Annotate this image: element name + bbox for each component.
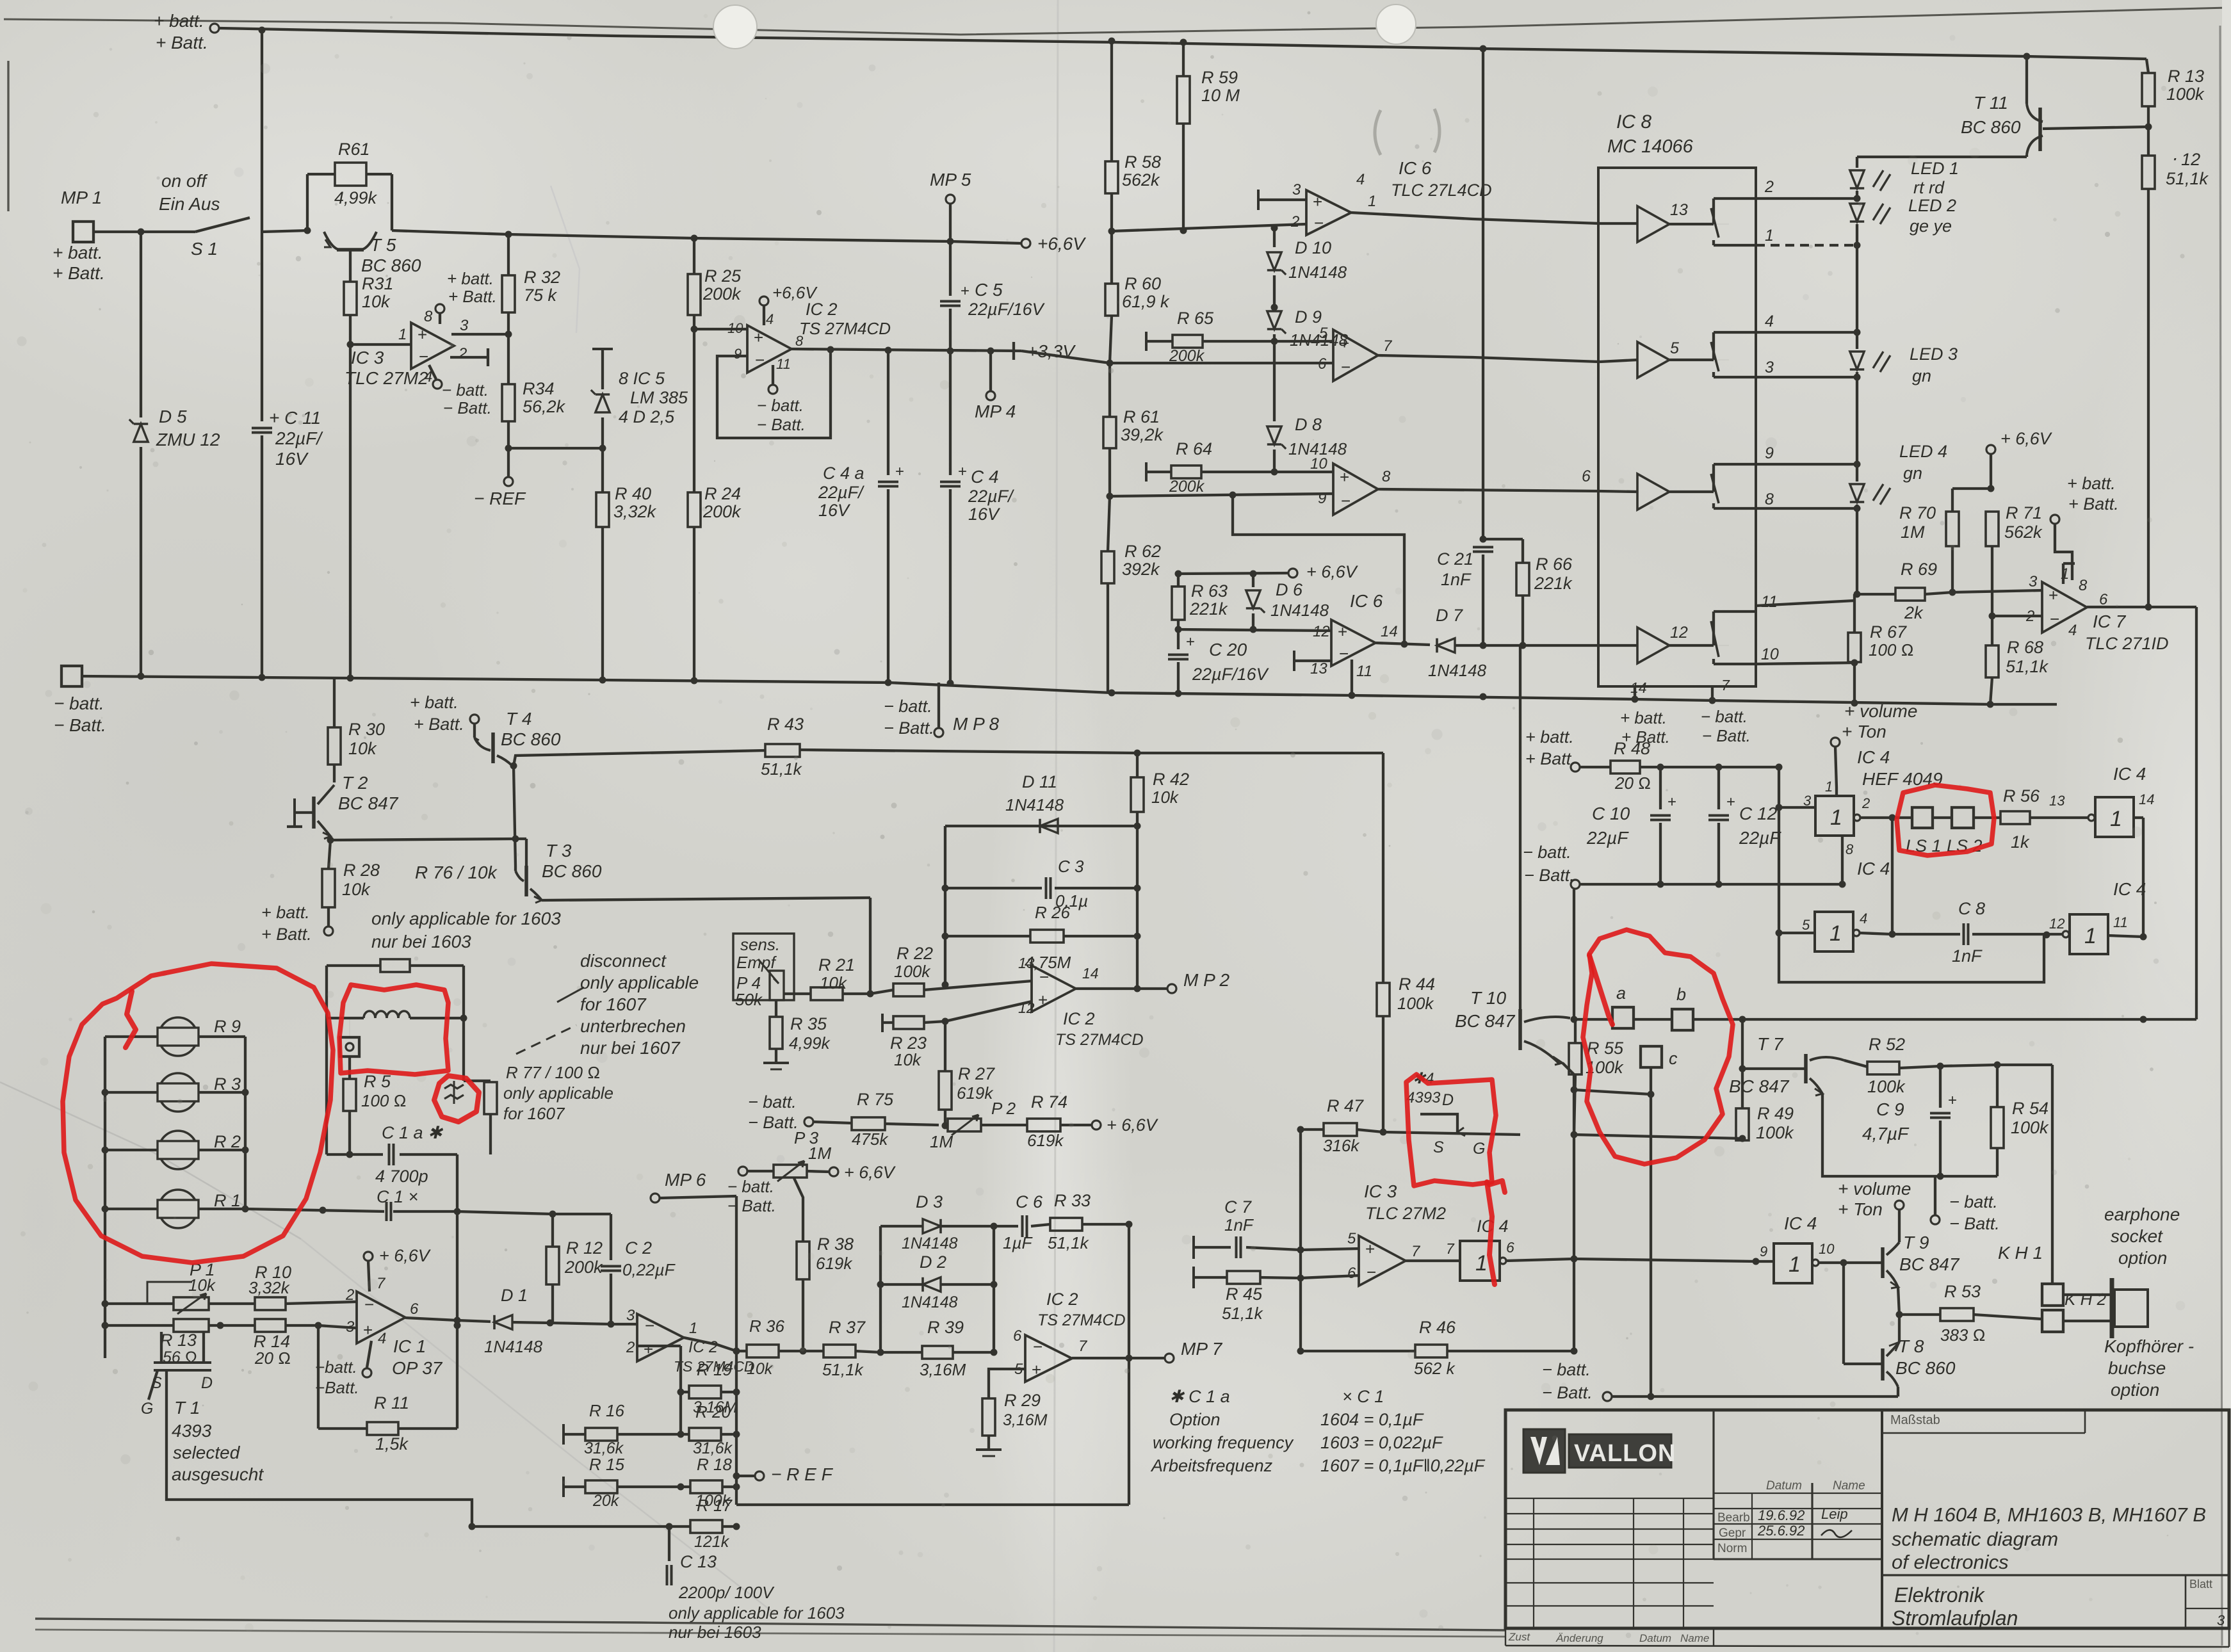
svg-text:LED 4: LED 4: [1899, 442, 1947, 461]
svg-text:R 75: R 75: [857, 1090, 894, 1109]
svg-text:D 6: D 6: [1276, 580, 1303, 599]
node -batt bottom mid: [1603, 1392, 1612, 1401]
svg-text:4,99k: 4,99k: [789, 1033, 831, 1053]
wire R24 to -batt rail: [693, 527, 695, 681]
wire MP1 to S1: [93, 231, 195, 233]
wire input loop vertical: [1779, 767, 2044, 982]
node -batt terminal square: [61, 666, 82, 686]
svg-text:39,2k: 39,2k: [1121, 425, 1164, 444]
wire +6.6V rail: [392, 231, 1021, 243]
sheet border right edge: [2220, 26, 2222, 1646]
resistor R64 200k: [1145, 462, 1148, 482]
transistor T10 BC847: [1518, 1009, 1522, 1050]
wire LED1 node pin2: [1756, 197, 1857, 200]
svg-text:Blatt: Blatt: [2189, 1578, 2212, 1591]
svg-text:+: +: [1726, 793, 1735, 811]
diode D9 1N4148: [1267, 311, 1281, 329]
svg-text:T 11: T 11: [1974, 93, 2008, 113]
svg-text:gn: gn: [1912, 366, 1931, 385]
svg-text:TLC 27M2: TLC 27M2: [1365, 1204, 1446, 1223]
diode D8 1N4148: [1273, 341, 1276, 421]
svg-text:C 5: C 5: [975, 280, 1003, 300]
svg-text:socket: socket: [2111, 1226, 2163, 1246]
svg-text:+ batt.: + batt.: [410, 693, 458, 712]
svg-text:+: +: [1667, 793, 1676, 811]
node MP4: [989, 351, 992, 391]
capacitor C9 4.7uF: [1939, 1066, 1942, 1108]
svg-text:S 1: S 1: [191, 239, 218, 259]
wire C1 row extension to R12 C2: [457, 1211, 611, 1214]
wire R40 to -batt rail: [601, 527, 604, 680]
svg-text:IC 7: IC 7: [2093, 611, 2127, 631]
resistor R12 200k: [551, 1214, 554, 1247]
capacitor C11 22uF 16V: [261, 232, 263, 421]
svg-text:R 49: R 49: [1757, 1104, 1794, 1123]
wire IC7 top pins loop: [2062, 563, 2065, 584]
wire mid vertical feedback: [1573, 1090, 1575, 1351]
wire IC6c pin9 row: [1110, 494, 1333, 496]
svg-text:14: 14: [1082, 965, 1099, 982]
svg-text:Datum: Datum: [1639, 1632, 1671, 1644]
svg-text:−: −: [364, 1295, 374, 1314]
wire R27 vertical: [944, 1021, 946, 1071]
wire IC1 +6.6V pin7: [364, 1252, 373, 1261]
svg-text:+: +: [1340, 334, 1349, 353]
svg-text:R 44: R 44: [1399, 975, 1435, 994]
svg-text:2200p/ 100V: 2200p/ 100V: [678, 1583, 775, 1602]
svg-text:Maßstab: Maßstab: [1890, 1413, 1940, 1427]
wire D1 node to IC2c: [550, 1323, 637, 1324]
wire T9 T8 base tie: [1842, 1263, 1845, 1364]
resistor R71 562k: [1986, 512, 1999, 546]
svg-text:MP 1: MP 1: [61, 188, 102, 207]
svg-text:IC 3: IC 3: [351, 348, 384, 368]
node -REF bottom: [736, 1475, 754, 1477]
wire R21 node to R22: [870, 990, 893, 994]
svg-text:rt rd: rt rd: [1913, 178, 1945, 197]
svg-text:TS 27M4CD: TS 27M4CD: [1055, 1031, 1144, 1049]
wire c node down to -batt row: [1650, 1094, 1652, 1397]
node +batt T4: [470, 715, 479, 724]
svg-text:R61: R61: [338, 140, 370, 159]
wire R55/R49 bottom row: [1574, 1135, 1742, 1138]
svg-text:1N4148: 1N4148: [1428, 661, 1487, 680]
resistor R77 100ohm: [464, 1080, 491, 1082]
wire -batt row mid: [1580, 883, 1842, 886]
wire T3 row down to R21 node: [869, 898, 872, 994]
svg-text:C 2: C 2: [625, 1238, 652, 1258]
svg-text:1: 1: [2110, 807, 2122, 831]
svg-text:− batt.: − batt.: [442, 380, 489, 400]
resistor R39 3.16M: [880, 1351, 922, 1354]
svg-text:51,1k: 51,1k: [1048, 1233, 1090, 1252]
svg-text:nur bei 1603: nur bei 1603: [371, 932, 471, 952]
svg-text:− R E F: − R E F: [771, 1464, 834, 1484]
wire T8 emitter up to R53 node: [1898, 1315, 1901, 1342]
switch IC8-3: [1712, 464, 1715, 492]
svg-text:−: −: [1314, 213, 1324, 232]
svg-text:2: 2: [345, 1286, 354, 1304]
resistor R63 221k: [1177, 574, 1180, 587]
dashed disconnect mark: [516, 1025, 576, 1054]
svg-text:1k: 1k: [2011, 832, 2030, 852]
svg-text:14: 14: [2139, 791, 2154, 807]
svg-text:16V: 16V: [818, 501, 851, 520]
svg-text:− Batt.: − Batt.: [1524, 866, 1575, 885]
svg-text:619k: 619k: [816, 1254, 853, 1273]
red circle around R9 R3 R2 R1 sensor: [63, 964, 333, 1263]
transistor T9 BC847: [1881, 1247, 1885, 1278]
wire R70 R71 top row: [1952, 487, 1991, 490]
svg-text:R 16: R 16: [589, 1401, 624, 1420]
resistor R12 51.1k: [2147, 127, 2150, 156]
svg-text:Datum: Datum: [1766, 1479, 1802, 1493]
resistor R31 10k: [344, 282, 357, 315]
svg-text:1,5k: 1,5k: [375, 1434, 409, 1454]
svg-text:22µF: 22µF: [1739, 828, 1781, 848]
svg-text:R 60: R 60: [1124, 274, 1161, 293]
svg-text:R 61: R 61: [1123, 407, 1160, 426]
resistor R5 100ohm: [343, 1079, 356, 1111]
svg-text:+: +: [1338, 622, 1347, 642]
svg-text:only applicable for 1603: only applicable for 1603: [669, 1603, 845, 1623]
svg-text:IC 4: IC 4: [1784, 1213, 1817, 1233]
sheet border left tick: [7, 61, 9, 211]
wire IC7 pin2 row: [1992, 615, 2042, 617]
zener D6 1N4148: [1252, 574, 1254, 587]
wire IC6d pin13 tick: [1293, 651, 1295, 671]
svg-text:5: 5: [1670, 339, 1679, 357]
svg-text:R 68: R 68: [2007, 638, 2043, 657]
svg-text:56,2k: 56,2k: [523, 397, 566, 416]
svg-text:✱ C 1 a: ✱ C 1 a: [1169, 1387, 1230, 1406]
svg-text:T 5: T 5: [370, 235, 396, 255]
svg-text:for 1607: for 1607: [503, 1104, 565, 1123]
svg-text:× C 1: × C 1: [1342, 1387, 1384, 1406]
svg-text:8 IC 5: 8 IC 5: [619, 369, 665, 388]
svg-text:− Batt.: − Batt.: [757, 415, 806, 434]
svg-text:10k: 10k: [820, 973, 848, 992]
capacitor C3 0.1u: [945, 887, 1042, 889]
resistor R45 51.1k: [1192, 1267, 1195, 1288]
wire R31 to IC3 input node: [349, 315, 352, 344]
svg-text:S: S: [151, 1374, 162, 1392]
pot P3 1M: [738, 1167, 747, 1176]
svg-text:+: +: [1365, 1239, 1375, 1258]
capacitor C7 1nF: [1192, 1236, 1195, 1259]
svg-text:C 9: C 9: [1876, 1099, 1904, 1119]
resistor R56 1k: [1974, 816, 2000, 819]
svg-text:1M: 1M: [1901, 522, 1925, 542]
svg-text:3,16M: 3,16M: [920, 1360, 966, 1379]
wire IC2 feedback loop: [717, 350, 831, 438]
svg-text:BC 847: BC 847: [1899, 1254, 1960, 1274]
VALLON logo: [1523, 1429, 1565, 1473]
svg-text:R 46: R 46: [1419, 1318, 1456, 1337]
LED1 red: [1856, 157, 1858, 168]
inverter IC4-c: [1815, 912, 1853, 952]
svg-text:+ Ton: + Ton: [1838, 1199, 1883, 1219]
svg-text:3,32k: 3,32k: [613, 502, 657, 521]
wire IC1 pin4 -batt: [367, 1341, 371, 1368]
svg-text:T 3: T 3: [546, 841, 572, 861]
svg-text:R 18: R 18: [697, 1455, 732, 1474]
resistor R54 100k: [1996, 1065, 1999, 1107]
svg-text:D: D: [201, 1374, 213, 1392]
svg-text:3: 3: [2217, 1612, 2225, 1628]
svg-text:nur bei 1607: nur bei 1607: [580, 1038, 681, 1058]
resistor R68 51.1k: [1991, 616, 1993, 645]
svg-text:− batt.: − batt.: [727, 1177, 774, 1196]
inverter IC4-a: [1815, 796, 1854, 836]
svg-text:nur bei 1603: nur bei 1603: [669, 1623, 761, 1642]
resistor R13 100k: [2146, 59, 2148, 73]
op-amp IC3 TLC27M2: [411, 323, 454, 369]
svg-text:R 54: R 54: [2012, 1099, 2048, 1118]
switch S1: [195, 218, 250, 232]
svg-text:D 7: D 7: [1436, 606, 1463, 625]
wire +3.3V to comparator node: [1021, 351, 1110, 363]
svg-text:BC 847: BC 847: [1729, 1076, 1790, 1096]
wire LED2 node pin1: [1756, 244, 1857, 247]
svg-text:+: +: [1948, 1092, 1957, 1109]
svg-text:− Batt.: − Batt.: [1702, 726, 1751, 745]
svg-text:R 56: R 56: [2003, 786, 2040, 806]
transistor T5 BC860: [324, 232, 339, 250]
svg-text:4: 4: [378, 1330, 386, 1347]
transistor T11 BC860: [2025, 56, 2028, 104]
svg-text:IC 3: IC 3: [1364, 1181, 1397, 1201]
resistor R22 100k: [893, 984, 924, 996]
capacitor C6 1uF: [994, 1225, 1018, 1227]
svg-text:8: 8: [1765, 490, 1774, 508]
svg-text:+: +: [418, 325, 427, 344]
wire IC2 pin11 to -batt: [772, 365, 774, 384]
svg-text:+ batt.: + batt.: [1620, 708, 1667, 727]
svg-text:C 12: C 12: [1739, 804, 1778, 823]
svg-text:unterbrechen: unterbrechen: [580, 1016, 686, 1036]
svg-text:51,1k: 51,1k: [822, 1360, 864, 1379]
svg-text:+6,6V: +6,6V: [1037, 234, 1086, 254]
svg-text:2: 2: [1290, 213, 1299, 231]
svg-text:1: 1: [1829, 921, 1842, 946]
red box around inductor: [339, 985, 448, 1074]
capacitor C12 22uF: [1717, 767, 1720, 809]
wire R32 to R34: [507, 312, 510, 384]
svg-text:3: 3: [1292, 181, 1301, 198]
wire LED3 node pin3: [1756, 376, 1857, 378]
svg-text:R 28: R 28: [343, 861, 380, 880]
wire pin9 row: [1756, 463, 1857, 466]
wire +batt feed down to S1: [261, 30, 263, 232]
resistor R2: [159, 1131, 197, 1169]
svg-text:ge ye: ge ye: [1910, 216, 1952, 236]
svg-text:R34: R34: [523, 379, 555, 398]
svg-text:10: 10: [1761, 645, 1779, 663]
svg-text:+ batt.: + batt.: [53, 243, 103, 263]
punch hole right: [1376, 4, 1416, 44]
wire T4 to T3 vertical: [514, 766, 515, 866]
svg-text:+ batt.: + batt.: [261, 903, 310, 922]
red box around LS1 LS2: [1897, 785, 1994, 855]
svg-text:Stromlaufplan: Stromlaufplan: [1892, 1607, 2018, 1630]
resistor R25 200k: [693, 238, 695, 274]
svg-text:5: 5: [1319, 325, 1328, 342]
wire S1 node to T5: [262, 231, 307, 232]
svg-text:200k: 200k: [702, 284, 742, 304]
resistor R69 2k: [1857, 593, 1895, 595]
node MP5: [946, 195, 955, 204]
red scribble around squiggle: [434, 1076, 479, 1122]
coil loop frame: [325, 966, 328, 1154]
svg-text:D 9: D 9: [1295, 307, 1322, 327]
wire tap to IC2 pin10: [694, 328, 747, 330]
resistor R61b 39.2k: [1108, 363, 1111, 417]
op-amp IC2-c TS27M4CD: [637, 1314, 684, 1361]
svg-text:MC 14066: MC 14066: [1607, 136, 1694, 157]
red blob around pads a b c: [1583, 930, 1733, 1164]
svg-text:1N4148: 1N4148: [1005, 795, 1064, 814]
svg-text:M H 1604 B, MH1603 B, MH1607 B: M H 1604 B, MH1603 B, MH1607 B: [1892, 1503, 2206, 1526]
resistor R26 4.75M: [945, 935, 1030, 937]
node pad a: [1612, 1007, 1634, 1028]
svg-text:R 63: R 63: [1191, 581, 1228, 601]
resistor R9: [159, 1017, 197, 1056]
wire coil tap down: [348, 1057, 351, 1079]
svg-text:R 39: R 39: [927, 1318, 964, 1337]
svg-text:D 8: D 8: [1295, 415, 1322, 434]
svg-text:BC 860: BC 860: [542, 861, 602, 881]
svg-text:100k: 100k: [1397, 994, 1434, 1013]
svg-text:7: 7: [1383, 337, 1393, 355]
zener IC5 LM385 D2.5: [592, 348, 613, 350]
op-amp IC2 TS27M4CD regulator buffer: [747, 325, 791, 373]
svg-text:K H 2: K H 2: [2065, 1290, 2107, 1309]
buffer IC8-1: [1637, 206, 1669, 242]
wire comparator minus row: [1112, 224, 1306, 231]
svg-text:only applicable: only applicable: [503, 1083, 613, 1103]
svg-text:+6,6V: +6,6V: [772, 283, 818, 302]
svg-text:C 10: C 10: [1592, 804, 1630, 823]
switch IC8-1: [1714, 223, 1729, 225]
buffer IC8-3: [1637, 474, 1669, 510]
svg-text:R 40: R 40: [615, 484, 651, 503]
svg-text:20 Ω: 20 Ω: [254, 1348, 291, 1368]
wire D6 R63 bottom row to IC6d pin12: [1178, 629, 1331, 631]
svg-text:R 29: R 29: [1004, 1391, 1041, 1410]
svg-text:+ batt.: + batt.: [1525, 727, 1574, 747]
svg-text:100k: 100k: [894, 962, 931, 981]
svg-text:C 4: C 4: [971, 467, 999, 487]
svg-text:on off: on off: [161, 171, 208, 191]
wire IC6d output to D7: [1375, 643, 1430, 645]
svg-text:sens.: sens.: [740, 935, 780, 954]
earphone KH2: [2042, 1310, 2063, 1332]
transistor T4 BC860: [473, 724, 476, 738]
svg-text:Option: Option: [1169, 1410, 1221, 1429]
svg-text:R 52: R 52: [1869, 1035, 1905, 1054]
sensor resistor frame: [104, 1037, 106, 1358]
svg-text:−: −: [1341, 357, 1351, 377]
svg-text:R 77 / 100 Ω: R 77 / 100 Ω: [506, 1063, 600, 1082]
resistor R47 316k: [1301, 1128, 1324, 1131]
wire P4 wiper to R21: [784, 992, 811, 995]
svg-text:T 9: T 9: [1903, 1233, 1929, 1252]
svg-text:200k: 200k: [564, 1258, 603, 1277]
wire LED column to R69 node: [1856, 508, 1858, 594]
wire T5 base to R31: [349, 251, 352, 282]
svg-text:MP 6: MP 6: [665, 1170, 706, 1190]
resistor R44 100k: [1377, 983, 1390, 1016]
svg-text:4: 4: [1860, 911, 1867, 927]
resistor R16 31.6k: [562, 1424, 565, 1445]
svg-text:R 17: R 17: [697, 1496, 733, 1515]
svg-text:R 43: R 43: [767, 715, 804, 734]
svg-text:VALLON: VALLON: [1574, 1440, 1676, 1467]
svg-text:IC 6: IC 6: [1399, 158, 1432, 178]
svg-text:G: G: [1473, 1140, 1485, 1158]
wire T4 collector node: [510, 763, 517, 770]
wire node to IC6b pin6: [1110, 362, 1333, 364]
svg-text:12: 12: [1313, 623, 1330, 640]
node -batt below C9: [1934, 1176, 1936, 1215]
resistor R67 100ohm: [1853, 594, 1856, 633]
wire a/b pad row: [1574, 1018, 2196, 1021]
svg-text:BC 847: BC 847: [338, 793, 399, 813]
svg-text:− batt.: − batt.: [884, 697, 932, 716]
svg-text:D 1: D 1: [501, 1286, 528, 1305]
svg-text:C 20: C 20: [1209, 640, 1247, 660]
svg-text:M P 2: M P 2: [1183, 970, 1230, 990]
resistor R27 619k: [939, 1071, 952, 1110]
svg-text:1N4148: 1N4148: [484, 1337, 543, 1356]
wire D3 D2 frame verticals: [879, 1226, 882, 1352]
svg-text:3: 3: [2029, 573, 2038, 590]
svg-text:51,1k: 51,1k: [761, 759, 803, 779]
svg-text:R 36: R 36: [749, 1316, 784, 1336]
svg-text:+ volume: + volume: [1844, 701, 1917, 721]
svg-text:− Batt.: − Batt.: [727, 1196, 776, 1215]
svg-text:R 45: R 45: [1226, 1284, 1263, 1304]
svg-text:selected: selected: [173, 1443, 241, 1462]
svg-text:R 32: R 32: [524, 268, 560, 287]
sheet border top edge: [4, 8, 2228, 35]
resistor R21 10k: [811, 987, 843, 1000]
capacitor C13 2200p: [668, 1526, 670, 1561]
diode D5 ZMU12: [140, 232, 142, 417]
svg-text:BC 847: BC 847: [1455, 1011, 1516, 1031]
svg-text:b: b: [1676, 985, 1686, 1004]
svg-text:+: +: [1032, 1360, 1041, 1379]
svg-text:−: −: [755, 350, 765, 369]
svg-text:+ 6,6V: + 6,6V: [1306, 562, 1359, 581]
svg-text:R 48: R 48: [1614, 739, 1650, 758]
svg-text:1: 1: [1368, 193, 1376, 210]
IC8 MC14066 box: [1598, 168, 1756, 686]
svg-text:16V: 16V: [968, 505, 1001, 524]
resistor R29 3.16M: [982, 1398, 995, 1436]
comparator IC6 a TLC27L4CD: [1306, 190, 1351, 235]
transistor T2 BC847: [333, 765, 336, 782]
svg-text:6: 6: [410, 1300, 419, 1318]
title divider: [1882, 1574, 2229, 1576]
svg-text:Elektronik: Elektronik: [1894, 1583, 1986, 1607]
wire T10 emitter to row: [1562, 1063, 1574, 1090]
svg-text:C 3: C 3: [1058, 857, 1084, 876]
svg-text:IC 2: IC 2: [806, 300, 838, 319]
svg-text:− REF: − REF: [474, 489, 526, 508]
resistor R75 475k: [814, 1122, 852, 1123]
